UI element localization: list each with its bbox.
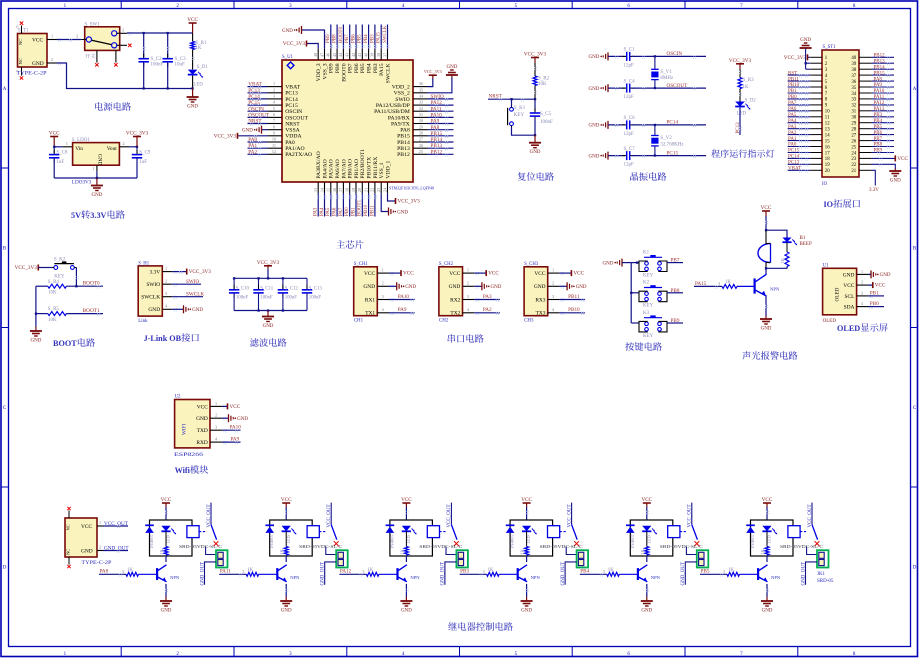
- svg-text:1uF: 1uF: [139, 160, 147, 165]
- svg-text:GND: GND: [30, 338, 41, 343]
- svg-text:BOOT0: BOOT0: [341, 63, 347, 81]
- svg-text:VCC_3V3: VCC_3V3: [524, 52, 547, 58]
- transistor NPN RLY4: [517, 568, 519, 580]
- title 复位电路: [517, 172, 525, 181]
- wire net PB7: [349, 25, 351, 49]
- pin U1 45 PB8: [336, 49, 338, 60]
- svg-text:PA4: PA4: [788, 119, 797, 124]
- pin U1 19 PB1/AO: [355, 182, 357, 193]
- switch SW1 body: [85, 22, 120, 50]
- svg-text:RXD: RXD: [196, 440, 207, 446]
- pin H1 2 SWIO: [162, 283, 172, 285]
- svg-text:PB7: PB7: [874, 137, 883, 142]
- svg-text:GND: GND: [363, 284, 375, 290]
- svg-text:3: 3: [382, 294, 384, 299]
- wire vout: [129, 146, 137, 148]
- svg-text:1K: 1K: [640, 548, 645, 554]
- svg-text:2: 2: [165, 279, 167, 284]
- pin ST1 21: [859, 169, 872, 171]
- junction alarm collector: [765, 267, 767, 269]
- svg-text:PA9: PA9: [874, 83, 883, 88]
- wire vcc RLY3: [405, 507, 407, 520]
- wire ST1 pin27: [872, 134, 894, 136]
- wire net BOOT1: [361, 193, 363, 216]
- wire keys bus: [630, 263, 632, 323]
- svg-text:1K: 1K: [159, 548, 164, 554]
- resistor 1K RLY2: [284, 547, 288, 556]
- svg-text:OSCOUT: OSCOUT: [248, 113, 270, 119]
- wire S_CH3 rx: [559, 299, 585, 301]
- wire bus-K3: [631, 322, 639, 324]
- svg-text:LED: LED: [193, 82, 203, 87]
- wire cap-net OSCOUT: [632, 87, 706, 89]
- wire emitter q1: [765, 296, 767, 316]
- svg-text:PB15: PB15: [431, 131, 443, 137]
- svg-text:PA11/USB/DM: PA11/USB/DM: [374, 109, 410, 115]
- power ground GND: [192, 89, 194, 98]
- svg-text:GND: GND: [641, 608, 652, 613]
- svg-text:PA10: PA10: [398, 294, 410, 300]
- pin ST1 11: [810, 116, 822, 118]
- pin U2 3 TXD: [210, 429, 222, 431]
- junction c3: [167, 32, 169, 34]
- pin U1 21 PB10/TX: [368, 182, 370, 193]
- wire NO contact RLY2: [326, 547, 336, 555]
- svg-text:2: 2: [76, 34, 78, 39]
- wire collector RLY2: [285, 556, 287, 562]
- svg-text:PC14: PC14: [248, 94, 260, 100]
- pin U1 29 PA8: [413, 129, 428, 131]
- crystal V2: [651, 135, 659, 137]
- svg-text:12pF: 12pF: [624, 163, 635, 168]
- svg-text:PA4/AO: PA4/AO: [322, 159, 328, 178]
- svg-text:17: 17: [338, 188, 343, 192]
- svg-text:GND: GND: [589, 124, 600, 129]
- wire ST1 pin36: [872, 80, 894, 82]
- svg-text:BOOT0: BOOT0: [339, 26, 344, 43]
- wire net PA10: [428, 116, 454, 118]
- svg-text:PB5: PB5: [360, 63, 366, 73]
- pin U1 48 VDD_3: [317, 49, 319, 60]
- wire wifi vcc: [222, 405, 228, 407]
- svg-text:PA11: PA11: [874, 95, 885, 100]
- svg-text:VCC_3V3: VCC_3V3: [214, 133, 237, 139]
- capacitor C2: [143, 54, 145, 59]
- svg-text:RX3: RX3: [535, 297, 545, 303]
- wire net PB10: [368, 193, 370, 216]
- pin U1 36 VDD_2: [413, 86, 428, 88]
- wire bus-K2: [631, 292, 639, 294]
- connector T1 TYPE-C-2P: [16, 25, 47, 76]
- mcu diamond marker: [287, 62, 294, 69]
- led RLY3: [402, 526, 411, 532]
- no-connect x relay RLY3: [454, 541, 459, 546]
- resistor base 1K RLY4: [487, 572, 500, 576]
- svg-text:GND: GND: [148, 307, 160, 313]
- svg-text:11: 11: [272, 143, 276, 148]
- junction xtal PC15: [654, 154, 656, 156]
- no-connect x SW1 b1: [95, 63, 98, 66]
- power gnd S_CH1: [396, 282, 398, 290]
- svg-text:U1: U1: [823, 264, 829, 269]
- led RLY4: [522, 526, 531, 532]
- svg-text:S_K2: S_K2: [54, 258, 66, 263]
- svg-text:PB12: PB12: [431, 149, 443, 155]
- wire net NRST: [248, 123, 268, 125]
- svg-text:GND: GND: [800, 38, 811, 43]
- svg-text:VCC: VCC: [875, 283, 886, 289]
- svg-text:VCC_3V3: VCC_3V3: [398, 199, 421, 205]
- pin U1 20 PB2/BOOT1: [361, 182, 363, 193]
- wire net PB9: [330, 25, 332, 49]
- capacitor S_C13: [306, 285, 308, 290]
- wire wifi gnd: [222, 417, 229, 419]
- wire SW1 to VCC rail: [127, 32, 193, 34]
- svg-text:S_C13: S_C13: [309, 286, 323, 291]
- svg-text:18: 18: [825, 157, 830, 162]
- svg-text:40: 40: [851, 56, 856, 61]
- wire ST1 vcc: [808, 56, 811, 58]
- pin T2 nc top: [68, 511, 70, 519]
- svg-text:26: 26: [419, 143, 423, 148]
- power ground alarm: [765, 316, 767, 320]
- svg-text:VCC: VCC: [32, 38, 43, 44]
- svg-text:PA2: PA2: [788, 131, 797, 136]
- svg-text:PB0: PB0: [870, 301, 879, 307]
- power gnd PC15: [607, 152, 609, 160]
- wire node to C5: [534, 99, 536, 111]
- svg-text:GND: GND: [91, 193, 102, 198]
- wire K2 stubs: [52, 267, 54, 269]
- svg-text:GND: GND: [242, 129, 253, 134]
- svg-text:SWIO: SWIO: [395, 97, 410, 103]
- wire net PB14: [428, 141, 454, 143]
- key K1: [510, 107, 514, 111]
- pin U1 23 VSS_1: [380, 182, 382, 193]
- svg-text:3.3V: 3.3V: [149, 270, 160, 276]
- svg-text:GND: GND: [187, 104, 198, 109]
- svg-text:SRD-05VDC-SL-C: SRD-05VDC-SL-C: [780, 544, 823, 549]
- svg-text:VCC: VCC: [762, 497, 773, 503]
- junction filter top: [233, 277, 235, 279]
- wire ST1 pin8: [788, 98, 811, 100]
- svg-text:37: 37: [851, 74, 856, 79]
- svg-text:NRST: NRST: [489, 93, 503, 99]
- pin U2 4 RXD: [210, 441, 222, 443]
- svg-text:27: 27: [419, 137, 423, 142]
- svg-text:VCC: VCC: [364, 271, 375, 277]
- svg-text:PC15: PC15: [285, 103, 298, 109]
- svg-text:10K: 10K: [48, 291, 57, 296]
- pin S_CH1 2: [377, 285, 389, 287]
- svg-text:VSS_1: VSS_1: [379, 162, 385, 178]
- wire ST1 pin39: [872, 62, 894, 64]
- wire led-res RLY1: [165, 531, 167, 546]
- no-connect x T2 bottom: [67, 565, 70, 568]
- pin ST1 28: [859, 128, 872, 130]
- svg-text:S_C3: S_C3: [175, 57, 187, 62]
- wire net PC15: [248, 104, 268, 106]
- svg-text:3.3V: 3.3V: [869, 188, 879, 193]
- wire ST1 pin15: [788, 140, 811, 142]
- resistor 1K RLY4: [525, 547, 529, 556]
- wire K1 to gnd rail: [512, 127, 536, 135]
- wire S_C10 top: [233, 278, 235, 290]
- svg-text:PA6/AO: PA6/AO: [335, 159, 341, 178]
- pin U1 6 OSCOUT: [268, 116, 283, 118]
- svg-text:PA9: PA9: [431, 119, 440, 125]
- header H1 body: [138, 266, 162, 316]
- svg-text:39: 39: [851, 62, 856, 67]
- capacitor S_C4 12pF: [622, 87, 627, 89]
- wire filter bottom rail: [234, 310, 307, 312]
- junction filter bottom: [282, 309, 284, 311]
- pin U1 24 VDD_1: [387, 182, 389, 193]
- svg-text:Vin: Vin: [75, 146, 83, 152]
- svg-text:PB3: PB3: [373, 63, 379, 73]
- svg-text:S_C1: S_C1: [624, 48, 636, 53]
- svg-text:OLED: OLED: [823, 319, 837, 324]
- svg-text:21: 21: [851, 169, 856, 174]
- pin S_CH1 4: [377, 312, 389, 314]
- svg-text:NPN: NPN: [290, 575, 300, 580]
- wire led-res RLY3: [405, 531, 407, 546]
- wire filter vcc stub: [267, 269, 269, 279]
- pin ST1 26: [859, 140, 872, 142]
- pin U1 33 PA12/USB/DP: [413, 104, 428, 106]
- relay coil RLY6: [788, 526, 800, 538]
- pin U1-oled 4 SDA: [857, 306, 868, 308]
- connector S_CH3 body: [524, 267, 548, 316]
- diode 1N4007 RLY2: [265, 524, 274, 526]
- pin ST1 15: [810, 140, 822, 142]
- wire H1 vcc: [172, 271, 186, 273]
- wire net PB15: [428, 135, 454, 137]
- svg-text:IO: IO: [822, 182, 828, 187]
- svg-text:S_CH1: S_CH1: [354, 262, 369, 267]
- no-connect x SW1 b2: [114, 63, 117, 66]
- svg-text:2: 2: [51, 57, 53, 62]
- svg-text:TX3: TX3: [536, 311, 546, 317]
- pin ST1 30: [859, 116, 872, 118]
- wire emitter RLY5: [646, 584, 648, 597]
- wire emitter RLY2: [285, 584, 287, 597]
- pin U1 17 PA7/AO: [342, 182, 344, 193]
- pin U1 2 PC13: [268, 92, 283, 94]
- no-connect x relay RLY1: [214, 541, 219, 546]
- pin ST1 6: [810, 86, 822, 88]
- svg-text:30: 30: [419, 118, 423, 123]
- pin U1 42 PB6: [355, 49, 357, 60]
- svg-text:PB1: PB1: [788, 89, 797, 94]
- pin ST1 31: [859, 110, 872, 112]
- svg-text:PB13: PB13: [397, 146, 410, 152]
- pin U1 25 PB12: [413, 153, 428, 155]
- wire rail-R5: [36, 313, 48, 315]
- pin U1 32 PA11/USB/DM: [413, 110, 428, 112]
- svg-text:15: 15: [825, 139, 830, 144]
- svg-text:2: 2: [382, 281, 384, 286]
- wire common RLY6: [811, 503, 813, 525]
- svg-text:VCC: VCC: [403, 271, 414, 277]
- svg-text:1: 1: [382, 268, 384, 273]
- relay coil RLY3: [427, 526, 439, 538]
- svg-text:3: 3: [215, 425, 217, 430]
- svg-text:33: 33: [419, 100, 423, 105]
- pin U1 41 PB5: [361, 49, 363, 60]
- wire led-res RLY5: [646, 531, 648, 546]
- capacitor S_C1 12pF: [622, 55, 627, 57]
- wire net PA7: [342, 193, 344, 216]
- capacitor S_C12: [282, 285, 284, 290]
- wire collector RLY6: [766, 556, 768, 562]
- svg-text:10K: 10K: [48, 318, 57, 323]
- wire common RLY5: [691, 503, 693, 525]
- wire R3-D2: [739, 89, 741, 102]
- pin U1 40 PB4: [368, 49, 370, 60]
- svg-text:GND: GND: [880, 273, 891, 278]
- svg-text:SWCLK: SWCLK: [186, 291, 204, 297]
- pin S_CH1 1: [377, 272, 389, 274]
- power gnd OSCOUT: [607, 84, 609, 92]
- wire ST1 pin17: [788, 152, 811, 154]
- svg-text:S_C6: S_C6: [624, 116, 636, 121]
- wire vcc RLY4: [526, 507, 528, 520]
- svg-text:3: 3: [483, 569, 485, 574]
- svg-text:100nF: 100nF: [309, 296, 322, 301]
- pin ST1 5: [810, 80, 822, 82]
- wire S_CH3 vcc: [559, 272, 571, 274]
- wire base RLY2: [259, 573, 277, 575]
- svg-text:OLED: OLED: [835, 287, 841, 301]
- wire ST1 pin9: [788, 104, 811, 106]
- wire base RLY5: [619, 573, 637, 575]
- svg-text:PB9: PB9: [329, 63, 335, 73]
- wire VSS_2 gnd: [428, 78, 452, 93]
- wire PA15: [694, 285, 722, 287]
- svg-text:PA8: PA8: [400, 128, 410, 134]
- svg-text:24: 24: [851, 151, 856, 156]
- svg-text:S_U1: S_U1: [282, 55, 294, 60]
- svg-text:PA3: PA3: [788, 125, 797, 130]
- wire boot rail: [35, 286, 37, 326]
- svg-text:16: 16: [825, 145, 830, 150]
- label 开关: [85, 54, 90, 59]
- wire C9 top: [136, 147, 138, 153]
- svg-text:U2: U2: [175, 395, 181, 400]
- pin SW1 bottom-2: [115, 50, 117, 62]
- no-connect x relay RLY5: [694, 541, 699, 546]
- svg-text:PB7: PB7: [671, 258, 680, 264]
- junction gnd rail c3: [167, 87, 169, 89]
- pin ST1 40: [859, 56, 872, 58]
- svg-text:VCC_OUT: VCC_OUT: [808, 504, 813, 527]
- junction gnd rail led: [191, 87, 193, 89]
- transistor NPN RLY3: [396, 568, 398, 580]
- wire T1 VCC to SW1: [57, 39, 81, 41]
- wire ST1 pin30: [872, 116, 894, 118]
- svg-text:PB4: PB4: [367, 63, 373, 73]
- svg-text:PA0: PA0: [285, 140, 295, 146]
- key K2: [54, 266, 58, 270]
- relay coil RLY5: [668, 526, 680, 538]
- svg-text:TX1: TX1: [365, 311, 375, 317]
- svg-text:VCC: VCC: [81, 524, 92, 530]
- relay lever RLY3: [451, 525, 457, 540]
- svg-text:PB10: PB10: [364, 204, 369, 216]
- wire ST1 pin21: [872, 170, 876, 185]
- pin U1 14 PA4/AO: [324, 182, 326, 193]
- svg-text:NC: NC: [18, 58, 23, 64]
- svg-text:9: 9: [273, 130, 275, 135]
- svg-text:GND_OUT: GND_OUT: [321, 562, 326, 586]
- wire GND_OUT RLY6: [806, 562, 818, 585]
- pin U1 4 PC15: [268, 104, 283, 106]
- svg-text:PB5: PB5: [874, 125, 883, 130]
- svg-text:S_K1: S_K1: [514, 106, 526, 111]
- svg-text:VCC: VCC: [521, 497, 532, 503]
- pin ST1 20: [810, 169, 822, 171]
- wire net PA11: [428, 110, 454, 112]
- junction keys 1: [636, 262, 638, 264]
- capacitor S_C6 12pF: [622, 124, 627, 126]
- pin ST1 1: [810, 56, 822, 58]
- resistor base 1K RLY5: [607, 572, 620, 576]
- svg-text:1: 1: [467, 268, 469, 273]
- capacitor S_C11: [258, 285, 260, 290]
- svg-text:3: 3: [122, 569, 124, 574]
- svg-text:S_C10: S_C10: [236, 286, 250, 291]
- wire K3-PB9: [667, 322, 683, 324]
- svg-text:GND_OUT: GND_OUT: [200, 562, 205, 586]
- pin U1 22 PB11/RX: [374, 182, 376, 193]
- pin U1 13 PA3RX/AO: [317, 182, 319, 193]
- svg-text:PB3: PB3: [874, 113, 883, 118]
- svg-text:PB7: PB7: [348, 63, 354, 73]
- wire H1 swio: [172, 283, 201, 285]
- wire K1-PB7: [667, 262, 683, 264]
- svg-text:5: 5: [273, 106, 275, 111]
- svg-text:PA11: PA11: [220, 569, 232, 575]
- svg-text:NC: NC: [66, 524, 71, 530]
- wire common RLY1: [210, 503, 212, 525]
- resistor 1K RLY6: [765, 547, 769, 556]
- pin H1 1 3.3V: [162, 271, 172, 273]
- capacitor C9: [136, 150, 138, 155]
- resistor base 1K RLY1: [126, 572, 139, 576]
- svg-text:PB0: PB0: [788, 95, 797, 100]
- wire vcc-K2: [38, 267, 52, 269]
- switch SW1 contacts: [86, 37, 91, 42]
- pin ST1 3: [810, 68, 822, 70]
- svg-text:PB1/AO: PB1/AO: [354, 159, 360, 179]
- svg-text:40: 40: [363, 53, 368, 57]
- junction keys 2: [630, 292, 632, 294]
- wire net OSCOUT: [248, 116, 268, 118]
- svg-text:20: 20: [357, 188, 362, 192]
- svg-text:GND: GND: [97, 154, 103, 165]
- svg-text:PA15: PA15: [377, 32, 382, 43]
- wire led-res RLY6: [766, 531, 768, 546]
- wire VCC to R1: [192, 33, 194, 41]
- svg-text:SRD-05VDC-SL-C: SRD-05VDC-SL-C: [540, 544, 583, 549]
- svg-text:PB8: PB8: [671, 288, 680, 294]
- svg-text:S_V2: S_V2: [660, 136, 672, 141]
- svg-text:S_ST1: S_ST1: [823, 45, 837, 50]
- svg-text:VCC: VCC: [761, 205, 772, 211]
- pin H1 4 GND: [162, 308, 172, 310]
- resistor base 1K RLY3: [366, 572, 379, 576]
